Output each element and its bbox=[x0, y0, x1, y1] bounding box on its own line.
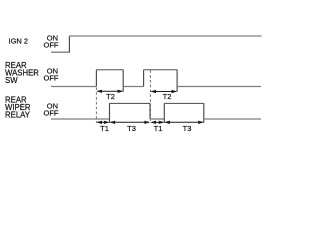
svg-text:IGN 2: IGN 2 bbox=[9, 37, 29, 46]
svg-text:T2: T2 bbox=[163, 92, 172, 101]
svg-text:T3: T3 bbox=[183, 124, 192, 133]
svg-text:RELAY: RELAY bbox=[5, 111, 31, 120]
svg-text:T3: T3 bbox=[127, 124, 136, 133]
svg-text:T2: T2 bbox=[106, 92, 115, 101]
svg-text:OFF: OFF bbox=[44, 109, 59, 118]
svg-text:T1: T1 bbox=[154, 124, 163, 133]
svg-text:SW: SW bbox=[5, 76, 18, 85]
svg-text:OFF: OFF bbox=[44, 41, 59, 50]
svg-text:OFF: OFF bbox=[44, 74, 59, 83]
svg-text:T1: T1 bbox=[100, 124, 109, 133]
